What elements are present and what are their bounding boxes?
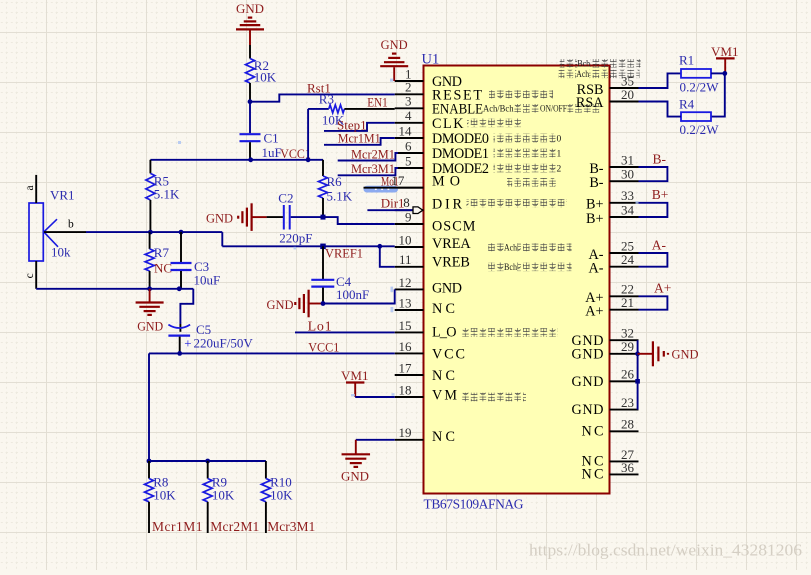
svg-text:23: 23	[621, 395, 634, 410]
svg-text:Mcr2M1: Mcr2M1	[351, 146, 395, 161]
svg-text:10K: 10K	[254, 70, 277, 85]
svg-text:GND: GND	[236, 1, 264, 16]
svg-text:GND: GND	[572, 374, 604, 390]
svg-text:GND: GND	[432, 281, 462, 297]
pin 27 (NC) right	[610, 460, 639, 462]
svg-text:5.1K: 5.1K	[154, 186, 180, 201]
svg-text:21: 21	[621, 295, 634, 310]
pin 36 (NC) right	[610, 473, 639, 475]
svg-text:11: 11	[399, 252, 412, 267]
svg-text:U1: U1	[422, 52, 440, 68]
pin 13 (NC) left	[395, 309, 424, 311]
wire MO pin over highlight	[364, 187, 424, 189]
wire b down to VREF1 level	[221, 232, 223, 246]
svg-text:Bch: Bch	[504, 263, 517, 273]
wiper arrow b of VR1	[44, 219, 57, 232]
svg-text:DIR: DIR	[432, 197, 463, 213]
wire pin 19 to GND	[356, 439, 395, 441]
svg-text:Mcr2M1: Mcr2M1	[210, 519, 259, 534]
svg-text:Mcr1M1: Mcr1M1	[152, 519, 203, 534]
svg-text:A+: A+	[585, 303, 603, 319]
earth ground GND (below R7)	[149, 289, 151, 303]
wire b node to R5/R7 and VREF1	[86, 231, 222, 233]
pin 30 (B-) right	[610, 180, 639, 182]
svg-text:10K: 10K	[153, 487, 176, 502]
wire R4 to pin 20	[639, 102, 682, 117]
svg-text:10K: 10K	[270, 487, 293, 502]
pin 20 (RSA) right	[610, 101, 639, 103]
annotation 电机Ach电流检测引脚	[559, 70, 577, 78]
svg-text:B+: B+	[586, 211, 603, 227]
pin 9 (OSCM) left	[395, 223, 424, 225]
svg-text:220pF: 220pF	[279, 230, 312, 245]
svg-text:16: 16	[399, 339, 413, 354]
pin 31 (B-) right	[610, 166, 639, 168]
pin 17 (NC) left	[395, 374, 424, 376]
junction R7/GND	[147, 286, 152, 291]
svg-text:A+: A+	[654, 281, 671, 296]
capacitor C4 100nF	[322, 246, 324, 279]
wire pin 35 to R1	[639, 73, 682, 88]
pin 18 (VM) left	[395, 396, 424, 398]
svg-text:VCC1: VCC1	[280, 146, 311, 161]
pin 26 (GND) right	[610, 380, 639, 382]
svg-text:18: 18	[399, 382, 412, 397]
wire GND to R2	[249, 45, 251, 59]
wire pins A- pair	[639, 253, 668, 267]
resistor R8 10K	[148, 461, 150, 479]
resistor R3 10K	[329, 105, 345, 113]
svg-text:https://blog.csdn.net/weixin_4: https://blog.csdn.net/weixin_43281206	[529, 541, 802, 560]
op-amp/driver IC U1 TB67S109AFNAG body	[424, 66, 610, 494]
junction pin 29	[635, 351, 640, 356]
svg-text:ON/OFF: ON/OFF	[540, 105, 567, 115]
pin 12 (GND) left	[395, 288, 424, 290]
pin 6 (DMODE1) left	[395, 152, 424, 154]
wire Lo1 to pin 15	[295, 331, 395, 333]
junction b/R5/R7	[148, 230, 153, 235]
svg-text:36: 36	[621, 460, 635, 475]
pin 21 (A+) right	[610, 309, 639, 311]
capacitor C1 1uF	[240, 133, 261, 135]
wire pins B+ pair	[639, 203, 668, 217]
junction VREF1/pin11	[377, 244, 382, 249]
wire VCC1 up to R3	[307, 109, 309, 160]
svg-text:L_O: L_O	[432, 325, 457, 341]
wire VCC1 horizontal (R5 to R6)	[150, 159, 323, 161]
pin 15 (L_O) left	[395, 331, 424, 333]
resistor R2 10K	[246, 59, 255, 84]
pin 4 (CLK) left	[395, 122, 424, 124]
svg-text:100nF: 100nF	[336, 287, 369, 302]
svg-text:GND: GND	[672, 346, 699, 361]
pin c of VR1	[35, 261, 37, 289]
power ground GND (right)	[638, 353, 652, 355]
wire pins A+ pair	[639, 296, 668, 309]
svg-text:+: +	[184, 335, 191, 350]
svg-text:EN1: EN1	[367, 95, 388, 110]
junction b/C3	[179, 230, 184, 235]
annotation 电机Bch电流检测引脚	[560, 59, 578, 67]
svg-text:19: 19	[399, 425, 412, 440]
svg-text:R6: R6	[327, 174, 343, 189]
svg-text:17: 17	[399, 360, 413, 375]
svg-text:6: 6	[405, 138, 412, 153]
junction C5/VCC1	[177, 351, 182, 356]
svg-text:5: 5	[405, 153, 412, 168]
svg-text:R3: R3	[319, 91, 334, 106]
svg-text:Ach/Bch: Ach/Bch	[483, 105, 514, 115]
svg-text:RSA: RSA	[576, 95, 604, 111]
svg-text:10uF: 10uF	[194, 272, 221, 287]
junction R3/VCC1	[306, 157, 311, 162]
svg-text:R1: R1	[679, 53, 694, 68]
wire VCC1 to pin 16	[149, 352, 395, 354]
svg-text:Ach: Ach	[576, 70, 589, 80]
svg-text:31: 31	[621, 152, 634, 167]
svg-text:VR1: VR1	[50, 187, 75, 202]
capacitor C3 10uF	[180, 232, 182, 262]
svg-text:VREB: VREB	[432, 255, 470, 271]
svg-text:2: 2	[557, 164, 562, 174]
svg-text:OSCM: OSCM	[432, 219, 476, 235]
svg-text:5.1K: 5.1K	[327, 189, 353, 204]
svg-text:2: 2	[405, 80, 412, 95]
pin 16 (VCC) left	[395, 352, 424, 354]
resistor R6 5.1K	[322, 160, 324, 176]
wire Mcr2M1 to pin 6	[338, 153, 398, 161]
svg-text:R4: R4	[679, 97, 695, 112]
pin 14 (DMODE0) left	[395, 137, 424, 139]
wire VCC1 down to R8/R9/R10	[148, 353, 150, 461]
wire GND pins 32/29/26/23	[637, 340, 639, 409]
svg-text:VM1: VM1	[711, 44, 738, 59]
svg-text:14: 14	[399, 123, 413, 138]
junction pin 26	[635, 379, 640, 384]
svg-text:B-: B-	[589, 175, 603, 191]
wire R1 to VM1 node	[711, 72, 725, 74]
svg-text:34: 34	[621, 202, 635, 217]
svg-text:NC: NC	[154, 261, 172, 276]
svg-text:Ach: Ach	[504, 243, 517, 253]
svg-text:10k: 10k	[51, 245, 71, 260]
resistor R7 NC	[149, 232, 151, 249]
svg-text:VM: VM	[432, 388, 457, 404]
svg-text:3: 3	[405, 94, 412, 109]
pin a of VR1	[35, 175, 37, 203]
pin 28 (NC) right	[610, 430, 639, 432]
pin 2 (RESET) left	[395, 93, 424, 95]
pin 18 (DIR) left	[395, 209, 424, 211]
pin 3 (ENABLE) left	[395, 107, 424, 109]
pin 23 (GND) right	[610, 409, 639, 411]
svg-text:20: 20	[621, 87, 634, 102]
svg-text:c: c	[24, 273, 36, 278]
resistor R5 5.1K	[149, 160, 151, 174]
svg-text:13: 13	[399, 295, 412, 310]
junction R6/C2/OSCM	[321, 215, 326, 220]
svg-text:VM1: VM1	[341, 368, 368, 383]
wire jog to C5	[180, 289, 193, 324]
wire Rst1 to pin 2	[250, 94, 395, 101]
svg-text:GND: GND	[206, 210, 233, 225]
svg-text:Dir1: Dir1	[381, 196, 405, 211]
junction C4/GND	[321, 301, 326, 306]
svg-text:CLK: CLK	[432, 116, 464, 132]
junction C3 bottom	[177, 286, 182, 291]
capacitor C2 220pF	[267, 216, 283, 218]
svg-text:30: 30	[621, 167, 634, 182]
wire Mcr1M1 to pin 14	[324, 138, 395, 145]
svg-text:10: 10	[399, 232, 412, 247]
svg-text:0: 0	[557, 134, 562, 144]
selection ticks	[178, 79, 639, 397]
svg-text:1uF: 1uF	[262, 145, 282, 160]
wire R3 to pin 3 (EN1)	[344, 108, 394, 110]
input arrow on DIR pin	[413, 207, 423, 214]
wire VREF1 to pins 10/11	[222, 245, 394, 247]
svg-text:A-: A-	[589, 260, 604, 276]
svg-text:DMODE1: DMODE1	[432, 146, 489, 162]
svg-text:C2: C2	[278, 191, 293, 206]
svg-text:Lo1: Lo1	[308, 319, 332, 334]
svg-text:29: 29	[621, 339, 634, 354]
resistor R1 0.2/2W	[681, 69, 711, 78]
svg-text:Mcr1M1: Mcr1M1	[338, 131, 381, 146]
svg-text:GND: GND	[381, 37, 408, 52]
pin 34 (B+) right	[610, 216, 639, 218]
svg-text:220uF/50V: 220uF/50V	[194, 336, 254, 351]
svg-text:1: 1	[557, 149, 562, 159]
svg-text:0.2/2W: 0.2/2W	[680, 122, 720, 137]
junction C1/VCC1	[248, 157, 253, 162]
svg-text:VREF1: VREF1	[325, 245, 363, 260]
pin 25 (A-) right	[610, 252, 639, 254]
svg-text:DMODE0: DMODE0	[432, 131, 489, 147]
wire GND to pin 12	[323, 289, 395, 303]
svg-text:VREA: VREA	[432, 236, 471, 252]
wire c node (VR1 c, R7, C3, GND, C5)	[36, 288, 193, 290]
junction Rst1	[248, 99, 253, 104]
svg-text:B+: B+	[652, 187, 669, 202]
wire VM1 to pin 18	[355, 396, 395, 398]
wire R3 left	[308, 108, 329, 110]
pin 19 (NC) left	[395, 439, 424, 441]
junction R8	[147, 459, 152, 464]
svg-text:12: 12	[399, 275, 412, 290]
svg-text:a: a	[24, 185, 36, 190]
pin 5 (DMODE2) left	[395, 167, 424, 169]
pin 33 (B+) right	[610, 202, 639, 204]
wire pins B- pair	[639, 167, 668, 181]
capacitor C5 220uF/50V (polarized)	[168, 325, 190, 328]
svg-text:0.2/2W: 0.2/2W	[680, 80, 720, 95]
svg-text:VCC: VCC	[432, 347, 465, 363]
pin 1 (GND) left	[395, 80, 424, 82]
pin 35 (RSB) right	[610, 87, 639, 89]
svg-text:C1: C1	[264, 130, 279, 145]
svg-text:VCC1: VCC1	[308, 340, 339, 355]
wire Mcr3M1 to pin 5	[338, 168, 398, 175]
potentiometer VR1 10k	[29, 203, 43, 261]
pin 10 (VREA) left	[395, 246, 424, 248]
wire Step1 to pin 4	[324, 123, 395, 131]
svg-text:b: b	[68, 218, 74, 230]
wire C2 to R6 bottom	[291, 216, 323, 218]
svg-text:15: 15	[399, 318, 412, 333]
svg-text:28: 28	[621, 417, 634, 432]
pin 29 (GND) right	[610, 353, 639, 355]
pin 32 (GND) right	[610, 339, 639, 341]
wire R2 to C1 / node Rst1	[249, 83, 251, 102]
wire VM1 node down to R4	[711, 73, 725, 116]
svg-text:10K: 10K	[212, 487, 235, 502]
svg-text:33: 33	[621, 188, 634, 203]
svg-text:GND: GND	[341, 469, 369, 484]
earth ground GND (pin 19)	[355, 440, 357, 455]
pin 11 (VREB) left	[395, 266, 424, 268]
junction R9	[205, 459, 210, 464]
svg-text:GND: GND	[267, 297, 294, 312]
svg-text:4: 4	[405, 108, 412, 123]
pin 17 (MO) left	[395, 187, 424, 189]
svg-text:TB67S109AFNAG: TB67S109AFNAG	[424, 497, 524, 512]
pin 24 (A-) right	[610, 266, 639, 268]
pin 22 (A+) right	[610, 295, 639, 297]
svg-text:A-: A-	[652, 237, 667, 252]
svg-text:24: 24	[621, 252, 635, 267]
resistor R4 0.2/2W	[681, 112, 711, 121]
svg-text:26: 26	[621, 367, 635, 382]
svg-text:GND: GND	[572, 402, 604, 418]
svg-text:GND: GND	[137, 318, 163, 333]
resistor R10 10K	[265, 461, 267, 479]
junction VREF1/C4	[320, 244, 326, 250]
svg-text:Mcr3M1: Mcr3M1	[267, 519, 315, 534]
svg-text:B-: B-	[653, 151, 667, 166]
svg-text:9: 9	[405, 209, 412, 224]
svg-text:GND: GND	[572, 346, 604, 362]
wire Dir1 to pin 18	[367, 209, 413, 211]
junction VM1/R1/R4	[722, 71, 727, 76]
wire to pin 9 OSCM	[323, 217, 395, 224]
resistor R9 10K	[207, 461, 209, 479]
highlight marker on Mo1 wire	[364, 186, 399, 193]
svg-text:R7: R7	[154, 245, 170, 260]
svg-text:Bch: Bch	[577, 60, 590, 70]
wire VREF1 down to pin 11	[380, 246, 395, 266]
